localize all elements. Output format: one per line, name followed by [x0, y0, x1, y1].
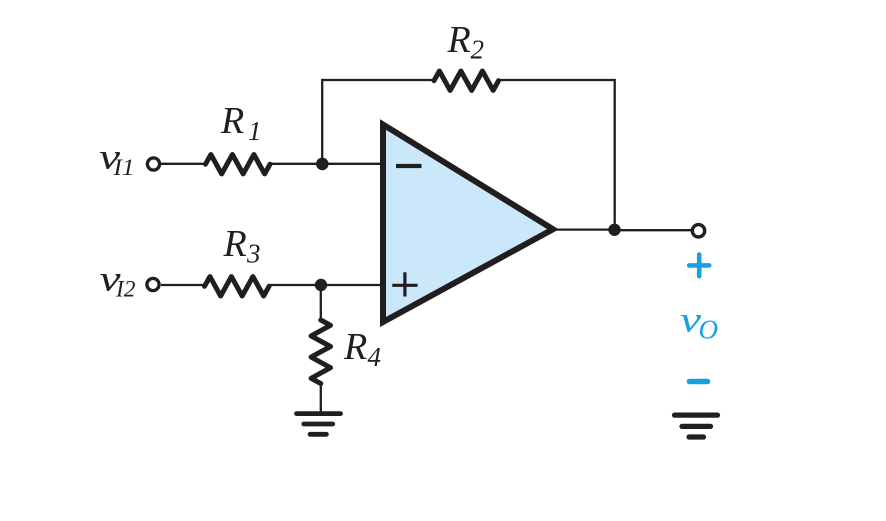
wire: op-amp output to node	[556, 228, 615, 230]
ground (output reference)	[675, 415, 718, 437]
svg-text:R: R	[343, 326, 367, 368]
wire: R1 to op-amp inverting input	[270, 163, 383, 165]
svg-text:R: R	[223, 223, 247, 265]
terminal vI2 (open circle)	[147, 278, 159, 290]
wire: right vertical from R2 down to output node	[614, 79, 616, 230]
node: inverting input junction	[316, 158, 329, 171]
svg-text:O: O	[699, 315, 719, 345]
svg-text:2: 2	[471, 35, 485, 65]
svg-text:I1: I1	[112, 155, 134, 180]
svg-text:1: 1	[248, 116, 262, 146]
node: output junction	[608, 224, 620, 236]
plus sign (vO polarity, cyan)	[689, 255, 709, 277]
op-amp minus sign	[396, 164, 422, 168]
resistor R1	[206, 155, 271, 174]
resistor R3	[205, 277, 270, 296]
wire: left vertical from R2 down to inverting node	[321, 79, 323, 164]
wire: output node to terminal	[615, 229, 692, 231]
resistor R4 (vertical)	[311, 320, 330, 384]
op-amp U1	[383, 125, 553, 323]
wire: top feedback right segment	[499, 79, 615, 81]
ground (below R4)	[297, 414, 341, 435]
resistor R2	[434, 71, 499, 90]
terminal vO (open circle)	[692, 225, 704, 237]
wire: R3 to op-amp non-inverting input	[269, 284, 383, 286]
wire: R4 to ground	[320, 384, 322, 413]
svg-text:4: 4	[368, 342, 382, 372]
minus sign (vO polarity, cyan)	[690, 379, 708, 385]
wire: vI1 terminal to R1	[161, 163, 206, 165]
wire: vI2 terminal to R3	[161, 284, 205, 286]
svg-text:I2: I2	[115, 277, 136, 302]
op-amp plus sign	[392, 272, 417, 296]
svg-text:R: R	[447, 19, 471, 61]
wire: top feedback left segment	[322, 79, 434, 81]
svg-text:3: 3	[246, 239, 261, 269]
terminal vI1 (open circle)	[147, 158, 159, 170]
wire: node down to R4	[320, 285, 322, 321]
node: non-inverting input junction	[315, 279, 327, 291]
svg-text:R: R	[220, 100, 244, 142]
